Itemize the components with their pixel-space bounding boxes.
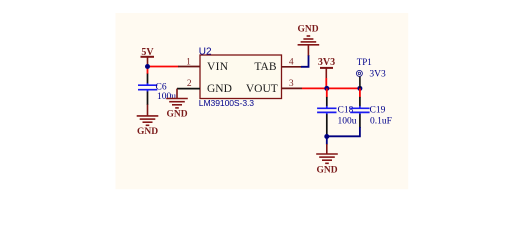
voltage regulator U2 (LM39100S-3.3) (199, 46, 282, 108)
capacitor C18 (317, 88, 357, 136)
pin 2 GND (177, 79, 200, 89)
power port 5V (141, 47, 155, 67)
wire node D down (326, 137, 328, 145)
svg-text:TP1: TP1 (357, 57, 372, 67)
svg-text:GND: GND (166, 109, 187, 119)
svg-text:100u: 100u (338, 117, 357, 127)
svg-text:2: 2 (187, 79, 192, 89)
capacitor C6 (138, 74, 176, 105)
svg-text:3V3: 3V3 (369, 70, 386, 80)
node B junction (3V3 / C18) (324, 86, 329, 91)
ground bottom right (316, 144, 338, 175)
svg-text:1: 1 (186, 58, 191, 68)
svg-text:GND: GND (137, 127, 158, 137)
svg-text:U2: U2 (199, 46, 212, 57)
svg-text:GND: GND (297, 25, 318, 35)
svg-text:C6: C6 (156, 82, 167, 92)
svg-text:GND: GND (316, 165, 337, 175)
pin 4 TAB (282, 58, 302, 68)
svg-text:4: 4 (289, 58, 294, 68)
wire 5V down to C6 (147, 67, 149, 75)
test point TP1 (356, 57, 386, 89)
wire 5V to pin1 (148, 66, 179, 68)
svg-text:C19: C19 (370, 106, 386, 116)
ground at pin 2 (166, 89, 188, 120)
ground top (flipped) (297, 25, 319, 56)
svg-text:GND: GND (207, 83, 232, 95)
power port 3V3 (318, 57, 335, 88)
node A junction (145, 64, 150, 69)
svg-text:100u: 100u (157, 92, 176, 102)
wire C19 bottom to node D (327, 127, 360, 136)
wire pin4 to top ground (301, 55, 309, 67)
capacitor C19 (350, 88, 392, 128)
schematic sheet (116, 13, 409, 189)
ground below C6 (137, 105, 159, 137)
node C junction (TP1 / C19) (357, 86, 362, 91)
svg-text:3: 3 (289, 79, 294, 89)
pin 1 VIN (178, 58, 200, 68)
svg-text:LM39100S-3.3: LM39100S-3.3 (199, 98, 254, 108)
pin 3 VOUT (282, 79, 303, 89)
svg-text:3V3: 3V3 (318, 57, 335, 68)
svg-text:0.1uF: 0.1uF (370, 117, 392, 127)
node D junction (324, 134, 329, 139)
svg-text:C18: C18 (338, 106, 354, 116)
svg-text:VIN: VIN (207, 61, 229, 73)
svg-text:TAB: TAB (254, 61, 276, 73)
svg-text:VOUT: VOUT (246, 83, 278, 95)
wire pin3 to junctions (3V3 net) (302, 87, 360, 89)
